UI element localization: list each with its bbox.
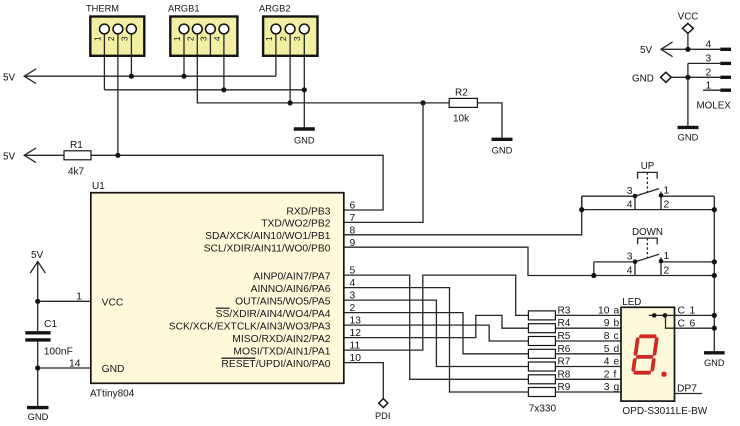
LED DP7 stub — [675, 393, 703, 395]
svg-text:SCK/XCK/EXTCLK/AIN3/WO3/PA3: SCK/XCK/EXTCLK/AIN3/WO3/PA3 — [169, 321, 331, 332]
svg-text:g: g — [614, 382, 620, 393]
node THERM.3 on 5V rail — [129, 74, 134, 79]
svg-text:OUT/AIN5/WO5/PA5: OUT/AIN5/WO5/PA5 — [235, 296, 331, 307]
LED common C6 line — [666, 315, 715, 328]
svg-text:MOSI/TXD/AIN1/PA1: MOSI/TXD/AIN1/PA1 — [233, 346, 330, 357]
wire pin8 to UP switch — [344, 196, 582, 235]
switch UP — [579, 161, 714, 212]
svg-text:R2: R2 — [455, 88, 468, 99]
seven segment digit 8 — [633, 336, 657, 372]
node GND junction — [35, 365, 40, 370]
resistor R9 — [528, 382, 570, 397]
svg-text:6: 6 — [690, 319, 696, 330]
svg-text:3: 3 — [604, 382, 610, 393]
wire pin9 to DOWN switch — [344, 247, 594, 275]
svg-text:GND: GND — [678, 133, 699, 143]
wire switches common vertical to ground — [713, 196, 715, 351]
wire pin11 to R3 — [344, 275, 529, 350]
svg-text:DOWN: DOWN — [632, 227, 663, 238]
op IC U1 ATtiny804 — [90, 181, 344, 400]
svg-text:4k7: 4k7 — [68, 167, 85, 178]
svg-text:f: f — [614, 369, 617, 380]
svg-text:C: C — [678, 319, 686, 330]
wire pin7 riser — [344, 103, 423, 222]
ground molex — [678, 127, 699, 142]
wire cap to ground — [37, 342, 39, 407]
wire molex junction to ground — [687, 77, 689, 126]
svg-text:4: 4 — [627, 200, 633, 211]
svg-text:GND: GND — [492, 146, 513, 156]
resistor R8 — [528, 369, 570, 384]
svg-text:5V: 5V — [3, 152, 16, 163]
wire 5V to R1 — [24, 154, 64, 156]
svg-text:5V: 5V — [3, 73, 16, 84]
svg-text:d: d — [614, 344, 620, 355]
wire THERM pin1 to GND row — [103, 34, 105, 90]
5V arrow at R1 — [3, 148, 36, 163]
svg-text:1: 1 — [172, 36, 182, 41]
svg-text:c: c — [614, 331, 619, 342]
molex pin 2 — [671, 68, 731, 80]
svg-text:7x330: 7x330 — [529, 404, 557, 415]
svg-text:UP: UP — [641, 161, 655, 172]
LED decimal point — [661, 372, 666, 377]
svg-text:1: 1 — [93, 36, 103, 41]
5V arrow above C1 — [30, 250, 45, 273]
resistor R4 — [528, 318, 570, 333]
svg-text:SCL/XDIR/AIN11/WO0/PB0: SCL/XDIR/AIN11/WO0/PB0 — [204, 244, 331, 255]
svg-text:3: 3 — [120, 36, 130, 41]
svg-text:GND: GND — [632, 73, 654, 84]
wire R8 to LED f — [555, 378, 621, 380]
svg-text:9: 9 — [604, 318, 610, 329]
svg-text:3: 3 — [199, 36, 209, 41]
node VCC junction — [35, 299, 40, 304]
svg-text:10: 10 — [598, 305, 610, 316]
LED display OPD-S3011LE-BW — [621, 297, 708, 417]
svg-text:GND: GND — [704, 358, 725, 368]
node ARGB1.4 junction — [221, 87, 226, 92]
connector ARGB2 — [259, 4, 318, 56]
5V arrow top left — [3, 69, 36, 84]
svg-text:ARGB1: ARGB1 — [168, 4, 200, 14]
svg-text:GND: GND — [28, 412, 49, 422]
svg-text:5: 5 — [604, 344, 610, 355]
svg-text:4: 4 — [212, 36, 222, 41]
svg-text:100nF: 100nF — [44, 347, 73, 358]
node pin7 riser on R2 rail — [420, 100, 425, 105]
GND diamond molex — [632, 72, 671, 84]
wire R1 to U1 pin6 — [91, 155, 383, 210]
svg-text:7: 7 — [350, 213, 356, 224]
wire R5 to LED c — [555, 340, 621, 342]
svg-text:4: 4 — [627, 265, 633, 276]
svg-text:2: 2 — [604, 369, 610, 380]
wire THERM pin2 down to R1 rail — [117, 34, 119, 155]
svg-text:VCC: VCC — [102, 297, 124, 308]
wire ARGB1 pin3 stub — [209, 34, 211, 55]
svg-text:1: 1 — [664, 186, 670, 197]
wire VCC branch — [38, 300, 91, 302]
svg-text:2: 2 — [664, 265, 670, 276]
wire ARGB2 pin3 through GND row to ground — [303, 34, 305, 128]
wire R9 to LED g — [555, 391, 621, 393]
svg-text:5V: 5V — [640, 45, 653, 56]
wire molex pin3 down — [687, 63, 689, 77]
wire R4 to LED b — [555, 327, 621, 329]
wire ARGB1 pin2 down then right: R2 rail — [197, 34, 449, 103]
svg-text:b: b — [614, 318, 620, 329]
wire pin3 to R7 — [344, 300, 529, 366]
svg-text:R1: R1 — [70, 140, 83, 151]
resistor R5 — [528, 331, 570, 346]
svg-text:U1: U1 — [92, 181, 105, 192]
svg-text:RXD/PB3: RXD/PB3 — [286, 206, 330, 217]
wire pin13 to R5 — [344, 325, 529, 341]
node ARGB2.2 on R2 rail — [288, 100, 293, 105]
wire VCC to pin4 row — [687, 33, 689, 49]
connector ARGB1 — [168, 4, 237, 56]
svg-text:3: 3 — [627, 186, 633, 197]
svg-text:AINP0/AIN7/PA7: AINP0/AIN7/PA7 — [253, 271, 330, 282]
svg-text:10k: 10k — [453, 114, 470, 125]
LED common C1 line — [649, 314, 715, 316]
wire pin2 to R6 — [344, 313, 529, 354]
svg-text:GND: GND — [102, 364, 125, 375]
node THERM.2 on R1 rail — [115, 153, 120, 158]
ground at R2 — [492, 139, 513, 155]
svg-text:VCC: VCC — [678, 12, 699, 23]
svg-text:2: 2 — [278, 36, 288, 41]
svg-text:C: C — [678, 306, 686, 317]
svg-text:ARGB2: ARGB2 — [259, 4, 291, 14]
wire THERM pin3 to 5V rail — [130, 34, 132, 76]
wire molex pin4 — [661, 48, 720, 50]
resistor R3 — [528, 305, 570, 320]
molex pin 1 — [703, 80, 731, 91]
ground under ARGB2 — [294, 129, 315, 146]
ground at C1 — [27, 408, 49, 422]
svg-text:TXD/WO2/PB2: TXD/WO2/PB2 — [261, 219, 331, 230]
PDI diamond — [375, 399, 391, 422]
svg-text:e: e — [614, 357, 620, 368]
wire GND branch — [38, 367, 91, 369]
svg-text:2: 2 — [664, 200, 670, 211]
svg-text:DP7: DP7 — [677, 384, 697, 395]
svg-text:MISO/RXD/AIN2/PA2: MISO/RXD/AIN2/PA2 — [232, 334, 331, 345]
svg-text:THERM: THERM — [86, 4, 119, 14]
svg-text:C1: C1 — [44, 319, 57, 330]
svg-text:5V: 5V — [31, 250, 44, 261]
svg-text:6: 6 — [350, 201, 356, 212]
molex pin 3 — [688, 54, 731, 65]
resistor R7 — [528, 357, 570, 372]
wire ARGB1 pin4 to GND row — [223, 34, 225, 90]
overline RESET — [221, 357, 255, 359]
5V arrow molex — [640, 42, 673, 57]
wire pin10 to PDI — [344, 363, 384, 399]
svg-text:MOLEX: MOLEX — [697, 101, 732, 112]
switch DOWN — [591, 227, 714, 278]
wire 5V down to cap — [37, 262, 39, 331]
svg-text:3: 3 — [292, 36, 302, 41]
overline SS — [216, 307, 230, 309]
svg-text:1: 1 — [690, 306, 696, 317]
svg-text:4: 4 — [706, 40, 712, 51]
wire pin4 to R9 — [344, 288, 529, 392]
wire pin5 to R8 — [344, 275, 529, 379]
wire ARGB1 pin1 to 5V rail — [183, 34, 185, 76]
svg-text:GND: GND — [294, 136, 315, 146]
svg-text:2: 2 — [106, 36, 116, 41]
wire R6 to LED d — [555, 353, 621, 355]
svg-text:1: 1 — [264, 36, 274, 41]
svg-text:2: 2 — [186, 36, 196, 41]
svg-text:AINNO/AIN6/PA6: AINNO/AIN6/PA6 — [251, 284, 331, 295]
svg-text:PDI: PDI — [375, 411, 391, 421]
ground at switches — [704, 353, 725, 368]
svg-text:4: 4 — [604, 357, 610, 368]
svg-text:a: a — [614, 305, 620, 316]
wire R7 to LED e — [555, 366, 621, 368]
capacitor C1 100nF — [25, 319, 73, 358]
resistor R2 10k — [449, 88, 477, 125]
svg-text:OPD-S3011LE-BW: OPD-S3011LE-BW — [622, 406, 707, 417]
svg-text:LED: LED — [622, 297, 641, 308]
wire GND row (THERM.1 - ARGB1.4 - ARGB2.3) — [104, 89, 304, 91]
node ARGB1.1 on 5V rail — [181, 74, 186, 79]
wire ARGB2 pin1 end of 5V rail — [275, 34, 277, 76]
svg-text:3: 3 — [627, 252, 633, 263]
svg-text:1: 1 — [664, 251, 670, 262]
wire R2 right to ground — [477, 103, 502, 138]
svg-text:SS/XDIR/AIN4/WO4/PA4: SS/XDIR/AIN4/WO4/PA4 — [216, 309, 331, 320]
svg-text:RESET/UPDI/AIN0/PA0: RESET/UPDI/AIN0/PA0 — [221, 359, 330, 370]
wire pin12 to R4 — [344, 315, 529, 337]
resistor R6 — [528, 344, 570, 359]
wire R3 to LED a — [555, 314, 621, 316]
VCC diamond molex — [678, 12, 699, 34]
connector THERM — [86, 4, 144, 56]
node ARGB2.3 junction — [302, 87, 307, 92]
svg-text:SDA/XCK/AIN10/WO1/PB1: SDA/XCK/AIN10/WO1/PB1 — [205, 231, 331, 242]
svg-text:ATtiny804: ATtiny804 — [90, 389, 135, 400]
wire ARGB2 pin2 to R2 rail — [289, 34, 291, 103]
svg-text:8: 8 — [604, 331, 610, 342]
resistor R1 4k7 — [64, 140, 91, 178]
molex pin 4 — [706, 40, 732, 51]
wire 5V rail — [24, 75, 276, 77]
